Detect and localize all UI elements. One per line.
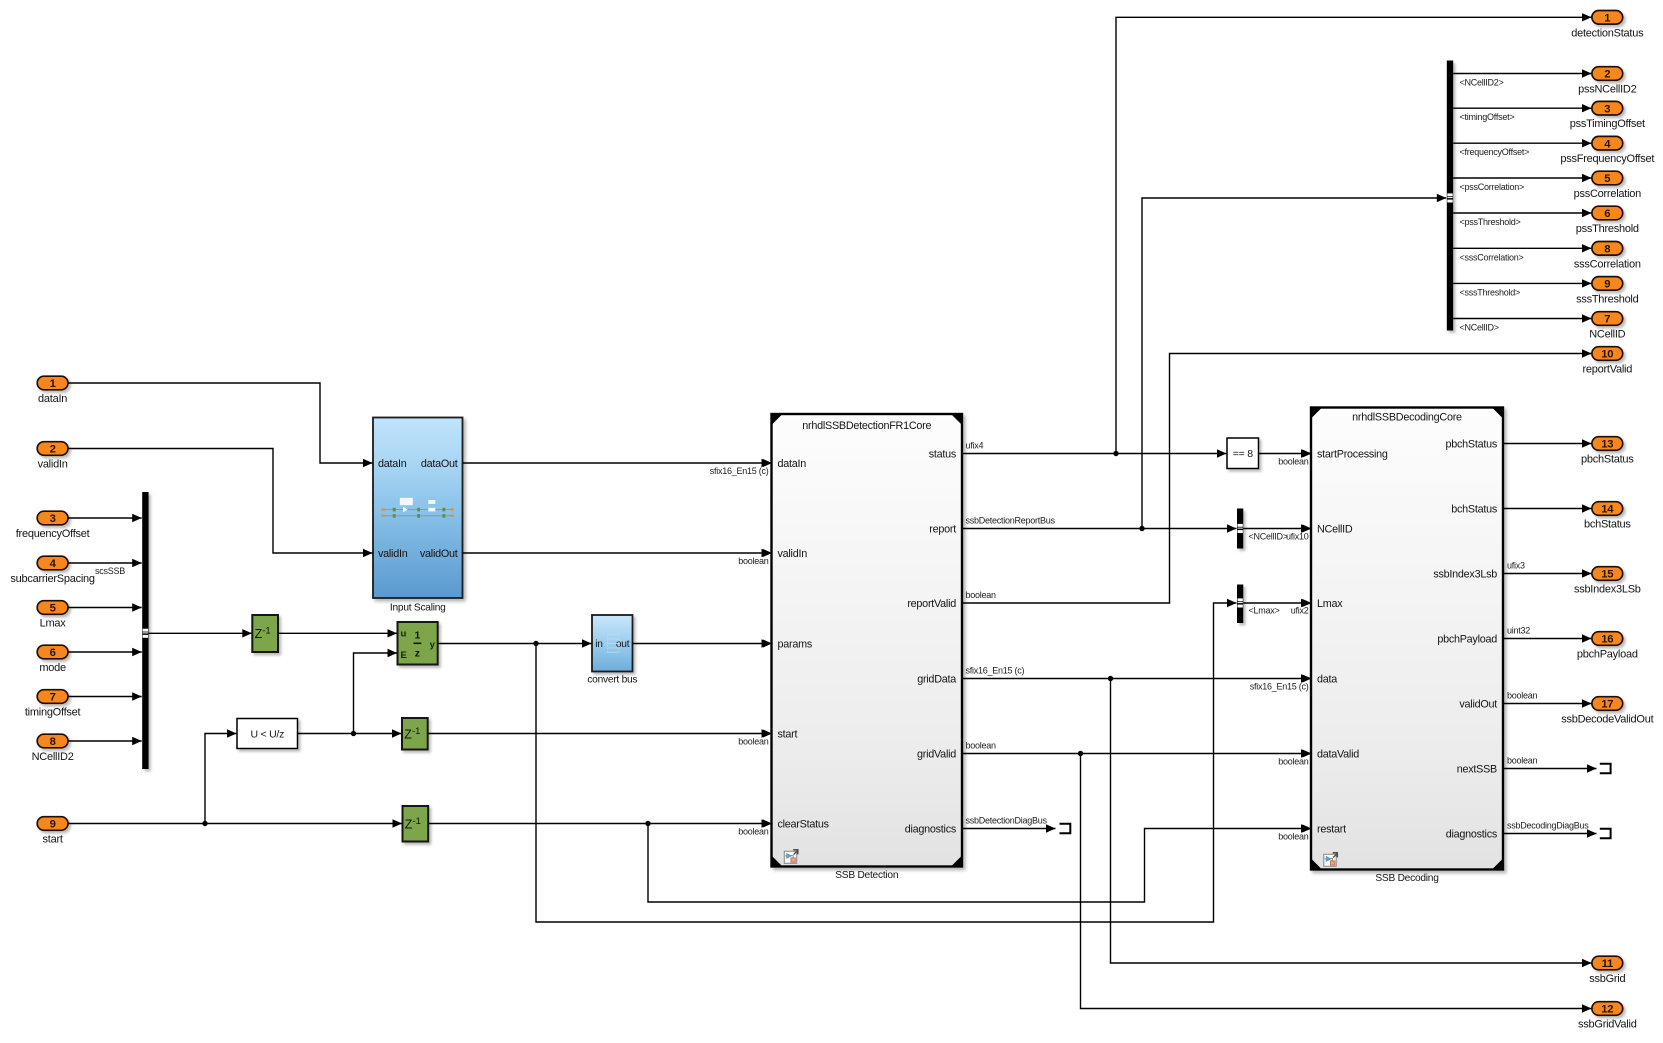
wire U<U/z to enable and Delay: [298, 733, 402, 735]
svg-text:bchStatus: bchStatus: [1451, 503, 1498, 515]
svg-text:gridValid: gridValid: [917, 748, 956, 760]
svg-text:pbchStatus: pbchStatus: [1445, 438, 1497, 450]
svg-text:subcarrierSpacing: subcarrierSpacing: [10, 573, 95, 585]
inport 5 Lmax: [37, 601, 68, 615]
svg-text:<NCellID2>: <NCellID2>: [1460, 78, 1504, 88]
wire Lmax selector to SSB Decoding Lmax: [1243, 602, 1310, 604]
wire report to NCellID bus selector: [962, 528, 1237, 530]
outport 8 sssCorrelation: [1592, 242, 1623, 256]
wire detection diagnostics to terminator: [962, 828, 1056, 830]
wire subcarrierSpacing to Mux: [68, 562, 142, 564]
svg-text:<sssCorrelation>: <sssCorrelation>: [1460, 252, 1524, 262]
svg-text:validOut: validOut: [1459, 698, 1497, 710]
wire ssbIndex3Lsb to outport: [1503, 573, 1592, 575]
wire status branch to detectionStatus outport: [1116, 17, 1592, 453]
wire report branch to big bus selector: [1142, 198, 1446, 529]
enabled delay subsystem 1/z: [398, 622, 438, 665]
inport 2 validIn: [37, 442, 68, 456]
svg-text:reportValid: reportValid: [1582, 364, 1632, 376]
wire start inport to Delay and U<U/z: [68, 823, 402, 825]
svg-text:dataIn: dataIn: [38, 393, 67, 405]
svg-text:ssbGridValid: ssbGridValid: [1578, 1019, 1637, 1031]
wire clearStatus Delay to SSB Detection clearStatus: [429, 823, 772, 825]
svg-text:2: 2: [1604, 69, 1610, 81]
svg-text:ufix3: ufix3: [1507, 560, 1525, 570]
svg-text:sfix16_En15 (c): sfix16_En15 (c): [966, 665, 1025, 675]
svg-text:8: 8: [50, 736, 56, 748]
svg-text:nextSSB: nextSSB: [1457, 763, 1497, 775]
model reference SSB Detection (nrhdlSSBDetectionFR1Core): [772, 414, 963, 867]
outport 13 pbchStatus: [1592, 437, 1623, 451]
wire gridValid branch to ssbGridValid outport: [1081, 754, 1592, 1009]
svg-text:ufix4: ufix4: [966, 440, 984, 450]
wire selector to outport pssNCellID2: [1453, 73, 1591, 75]
outport 16 pbchPayload: [1592, 632, 1623, 646]
svg-text:reportValid: reportValid: [907, 598, 956, 610]
svg-text:<NCellID>: <NCellID>: [1460, 323, 1499, 333]
model reference SSB Decoding (nrhdlSSBDecodingCore): [1311, 408, 1503, 870]
svg-text:2: 2: [50, 444, 56, 456]
wire Mux to Delay: [149, 632, 252, 634]
svg-text:convert bus: convert bus: [587, 675, 637, 686]
wire gridValid to SSB Decoding dataValid: [962, 753, 1311, 755]
svg-text:sfix16_En15 (c): sfix16_En15 (c): [710, 466, 769, 476]
svg-text:boolean: boolean: [1507, 755, 1538, 765]
bus creator Mux: [142, 492, 148, 769]
svg-text:<Lmax>: <Lmax>: [1249, 605, 1280, 615]
wire decoding diagnostics to terminator: [1503, 833, 1597, 835]
svg-text:4: 4: [1604, 138, 1611, 150]
wire selector to outport pssFrequencyOffset: [1453, 142, 1591, 144]
svg-text:Lmax: Lmax: [40, 618, 67, 630]
svg-text:validOut: validOut: [420, 548, 458, 560]
wire 1/z y to convert bus: [438, 643, 592, 645]
wire NCellID2 to Mux: [68, 740, 142, 742]
svg-text:dataValid: dataValid: [1317, 748, 1359, 760]
svg-text:10: 10: [1601, 349, 1613, 361]
svg-text:ssbIndex3Lsb: ssbIndex3Lsb: [1433, 568, 1497, 580]
svg-text:SSB Decoding: SSB Decoding: [1375, 873, 1439, 884]
svg-text:nrhdlSSBDetectionFR1Core: nrhdlSSBDetectionFR1Core: [802, 420, 931, 432]
wire ==8 to startProcessing: [1259, 453, 1311, 455]
svg-text:pssCorrelation: pssCorrelation: [1574, 188, 1642, 200]
inport 7 timingOffset: [37, 690, 68, 704]
svg-text:timingOffset: timingOffset: [25, 707, 81, 719]
outport 7 NCellID: [1592, 312, 1623, 326]
inport 1 dataIn: [37, 376, 68, 390]
outport 17 ssbDecodeValidOut: [1592, 697, 1623, 711]
svg-text:nrhdlSSBDecodingCore: nrhdlSSBDecodingCore: [1352, 412, 1462, 424]
svg-text:9: 9: [50, 819, 56, 831]
unit delay Z^-1 (start path): [402, 718, 428, 750]
svg-text:ssbDetectionReportBus: ssbDetectionReportBus: [966, 515, 1056, 525]
svg-text:E: E: [401, 650, 407, 661]
svg-text:pssNCellID2: pssNCellID2: [1578, 84, 1637, 96]
wire pbchStatus to outport: [1503, 443, 1592, 445]
svg-text:pssFrequencyOffset: pssFrequencyOffset: [1560, 153, 1654, 165]
svg-text:pssThreshold: pssThreshold: [1576, 223, 1639, 235]
svg-text:report: report: [929, 523, 956, 535]
svg-text:5: 5: [50, 603, 56, 615]
svg-text:== 8: == 8: [1233, 448, 1253, 460]
inport 4 subcarrierSpacing: [37, 556, 68, 570]
wire Input Scaling validOut to SSB Detection validIn: [463, 552, 772, 554]
bus selector NCellID: [1237, 509, 1243, 549]
svg-text:restart: restart: [1317, 823, 1346, 835]
svg-text:1: 1: [415, 630, 421, 642]
inport 9 start: [37, 817, 68, 831]
wire selector to outport sssCorrelation: [1453, 247, 1591, 249]
wire convert bus to SSB Detection params: [633, 643, 772, 645]
svg-text:in: in: [595, 639, 602, 650]
svg-text:1: 1: [1604, 13, 1610, 25]
svg-text:scsSSB: scsSSB: [95, 566, 125, 576]
svg-text:z: z: [415, 648, 420, 660]
svg-text:pbchPayload: pbchPayload: [1437, 633, 1497, 645]
wire Delay to 1/z u: [278, 632, 397, 634]
wire validOut to outport: [1503, 703, 1592, 705]
outport 15 ssbIndex3LSb: [1592, 567, 1623, 581]
svg-text:7: 7: [1604, 314, 1610, 326]
wire selector to outport pssTimingOffset: [1453, 107, 1591, 109]
wire status to ==8: [962, 453, 1227, 455]
wire selector to outport pssCorrelation: [1453, 177, 1591, 179]
wire NCellID selector to SSB Decoding NCellID: [1243, 528, 1310, 530]
svg-text:dataOut: dataOut: [421, 458, 458, 470]
wire gridData branch to ssbGrid outport: [1111, 679, 1592, 964]
svg-text:13: 13: [1601, 439, 1613, 451]
svg-text:boolean: boolean: [966, 590, 997, 600]
svg-text:<pssCorrelation>: <pssCorrelation>: [1460, 182, 1525, 192]
svg-text:Input Scaling: Input Scaling: [390, 603, 446, 614]
outport 11 ssbGrid: [1592, 956, 1623, 970]
svg-text:16: 16: [1601, 634, 1613, 646]
svg-text:status: status: [929, 448, 957, 460]
wire bchStatus to outport: [1503, 508, 1592, 510]
svg-text:8: 8: [1604, 244, 1610, 256]
outport 2 pssNCellID2: [1592, 67, 1623, 81]
svg-text:ssbGrid: ssbGrid: [1589, 973, 1625, 985]
svg-text:15: 15: [1601, 569, 1613, 581]
wire timingOffset to Mux: [68, 696, 142, 698]
svg-text:<pssThreshold>: <pssThreshold>: [1460, 217, 1521, 227]
wire Input Scaling dataOut to SSB Detection dataIn: [463, 462, 772, 464]
svg-text:6: 6: [50, 647, 56, 659]
wire reportValid to reportValid outport: [962, 354, 1592, 604]
svg-text:sssCorrelation: sssCorrelation: [1574, 258, 1641, 270]
subsystem Input Scaling: [373, 418, 463, 599]
svg-text:boolean: boolean: [966, 740, 997, 750]
inport 6 mode: [37, 645, 68, 659]
svg-text:boolean: boolean: [738, 736, 769, 746]
bus to vector convert bus: [592, 615, 633, 672]
svg-text:ufix10: ufix10: [1286, 531, 1309, 541]
svg-text:gridData: gridData: [917, 673, 956, 685]
outport 10 reportValid: [1592, 347, 1623, 361]
bus selector report fields: [1447, 61, 1453, 331]
wire nextSSB to terminator: [1503, 768, 1597, 770]
outport 1 detectionStatus: [1592, 11, 1623, 25]
inport 8 NCellID2: [37, 734, 68, 748]
svg-text:boolean: boolean: [1278, 456, 1309, 466]
wire pbchPayload to outport: [1503, 638, 1592, 640]
svg-text:out: out: [616, 639, 630, 650]
svg-text:<NCellID>: <NCellID>: [1249, 531, 1288, 541]
svg-text:dataIn: dataIn: [778, 458, 807, 470]
svg-text:ssbDetectionDiagBus: ssbDetectionDiagBus: [966, 815, 1048, 825]
svg-text:SSB Detection: SSB Detection: [835, 870, 898, 881]
terminator decoding diagnostics: [1600, 829, 1611, 838]
svg-text:U < U/z: U < U/z: [251, 728, 285, 740]
svg-text:params: params: [778, 638, 813, 650]
wire mode to Mux: [68, 651, 142, 653]
svg-text:<sssThreshold>: <sssThreshold>: [1460, 287, 1521, 297]
svg-text:data: data: [1317, 673, 1337, 685]
svg-text:validIn: validIn: [378, 548, 408, 560]
svg-text:14: 14: [1601, 504, 1614, 516]
wire gridData to SSB Decoding data: [962, 678, 1311, 680]
svg-text:uint32: uint32: [1507, 625, 1530, 635]
bus selector Lmax: [1237, 585, 1243, 624]
svg-text:ssbIndex3LSb: ssbIndex3LSb: [1574, 584, 1641, 596]
svg-text:start: start: [778, 728, 798, 740]
svg-text:boolean: boolean: [1278, 756, 1309, 766]
wire validIn to Input Scaling validIn: [68, 449, 373, 554]
outport 9 sssThreshold: [1592, 277, 1623, 291]
svg-text:sssThreshold: sssThreshold: [1576, 293, 1639, 305]
svg-text:start: start: [43, 834, 63, 846]
relational operator U < U/z: [237, 719, 298, 749]
svg-text:5: 5: [1604, 173, 1610, 185]
svg-text:9: 9: [1604, 279, 1610, 291]
svg-text:frequencyOffset: frequencyOffset: [16, 528, 90, 540]
svg-text:6: 6: [1604, 208, 1610, 220]
svg-text:pssTimingOffset: pssTimingOffset: [1570, 118, 1645, 130]
wire selector to outport sssThreshold: [1453, 282, 1591, 284]
svg-text:3: 3: [50, 513, 56, 525]
svg-text:1: 1: [50, 378, 56, 390]
svg-text:4: 4: [50, 558, 57, 570]
svg-text:diagnostics: diagnostics: [905, 823, 957, 835]
svg-text:NCellID: NCellID: [1589, 329, 1625, 341]
svg-text:3: 3: [1604, 103, 1610, 115]
outport 6 pssThreshold: [1592, 206, 1623, 220]
svg-text:11: 11: [1602, 958, 1613, 970]
wire start Delay to SSB Detection start: [428, 733, 771, 735]
svg-text:bchStatus: bchStatus: [1584, 519, 1631, 531]
wire Lmax to Mux: [68, 607, 142, 609]
outport 14 bchStatus: [1592, 502, 1623, 516]
compare to constant == 8: [1227, 438, 1259, 469]
wire clearStatus branch to SSB Decoding restart: [648, 824, 1311, 903]
svg-text:NCellID: NCellID: [1317, 523, 1353, 535]
inport 3 frequencyOffset: [37, 511, 68, 525]
svg-text:<timingOffset>: <timingOffset>: [1460, 112, 1515, 122]
svg-text:sfix16_En15 (c): sfix16_En15 (c): [1250, 681, 1309, 691]
svg-text:7: 7: [50, 692, 56, 704]
svg-text:startProcessing: startProcessing: [1317, 448, 1388, 460]
wire dataIn to Input Scaling dataIn: [68, 383, 373, 463]
wire selector to outport NCellID: [1453, 318, 1591, 320]
outport 3 pssTimingOffset: [1592, 101, 1623, 115]
wire frequencyOffset to Mux: [68, 517, 142, 519]
svg-text:ssbDecodingDiagBus: ssbDecodingDiagBus: [1507, 820, 1589, 830]
svg-text:Lmax: Lmax: [1317, 598, 1343, 610]
svg-text:diagnostics: diagnostics: [1446, 828, 1498, 840]
svg-text:boolean: boolean: [738, 826, 769, 836]
svg-text:validIn: validIn: [778, 548, 808, 560]
svg-text:ufix2: ufix2: [1291, 605, 1309, 615]
svg-text:17: 17: [1601, 699, 1613, 711]
outport 4 pssFrequencyOffset: [1592, 136, 1623, 150]
svg-text:u: u: [401, 629, 407, 640]
outport 12 ssbGridValid: [1592, 1002, 1623, 1016]
terminator detection diagnostics: [1060, 824, 1071, 833]
wire selector to outport pssThreshold: [1453, 212, 1591, 214]
terminator nextSSB: [1600, 764, 1611, 773]
svg-text:detectionStatus: detectionStatus: [1571, 27, 1644, 39]
svg-text:validIn: validIn: [38, 459, 68, 471]
outport 5 pssCorrelation: [1592, 171, 1623, 185]
svg-text:<frequencyOffset>: <frequencyOffset>: [1460, 147, 1530, 157]
unit delay Z^-1 (params path): [252, 615, 278, 652]
svg-text:boolean: boolean: [1278, 831, 1309, 841]
svg-text:boolean: boolean: [738, 556, 769, 566]
svg-text:12: 12: [1601, 1004, 1613, 1016]
svg-text:pbchPayload: pbchPayload: [1577, 649, 1638, 661]
svg-text:clearStatus: clearStatus: [778, 818, 830, 830]
wire params branch to Lmax bus selector: [536, 603, 1237, 922]
svg-text:mode: mode: [39, 662, 66, 674]
unit delay Z^-1 (clearStatus path): [403, 806, 429, 842]
svg-text:ssbDecodeValidOut: ssbDecodeValidOut: [1561, 714, 1653, 726]
svg-text:dataIn: dataIn: [378, 458, 407, 470]
svg-text:NCellID2: NCellID2: [32, 751, 74, 763]
svg-text:boolean: boolean: [1507, 690, 1538, 700]
svg-text:pbchStatus: pbchStatus: [1581, 454, 1634, 466]
